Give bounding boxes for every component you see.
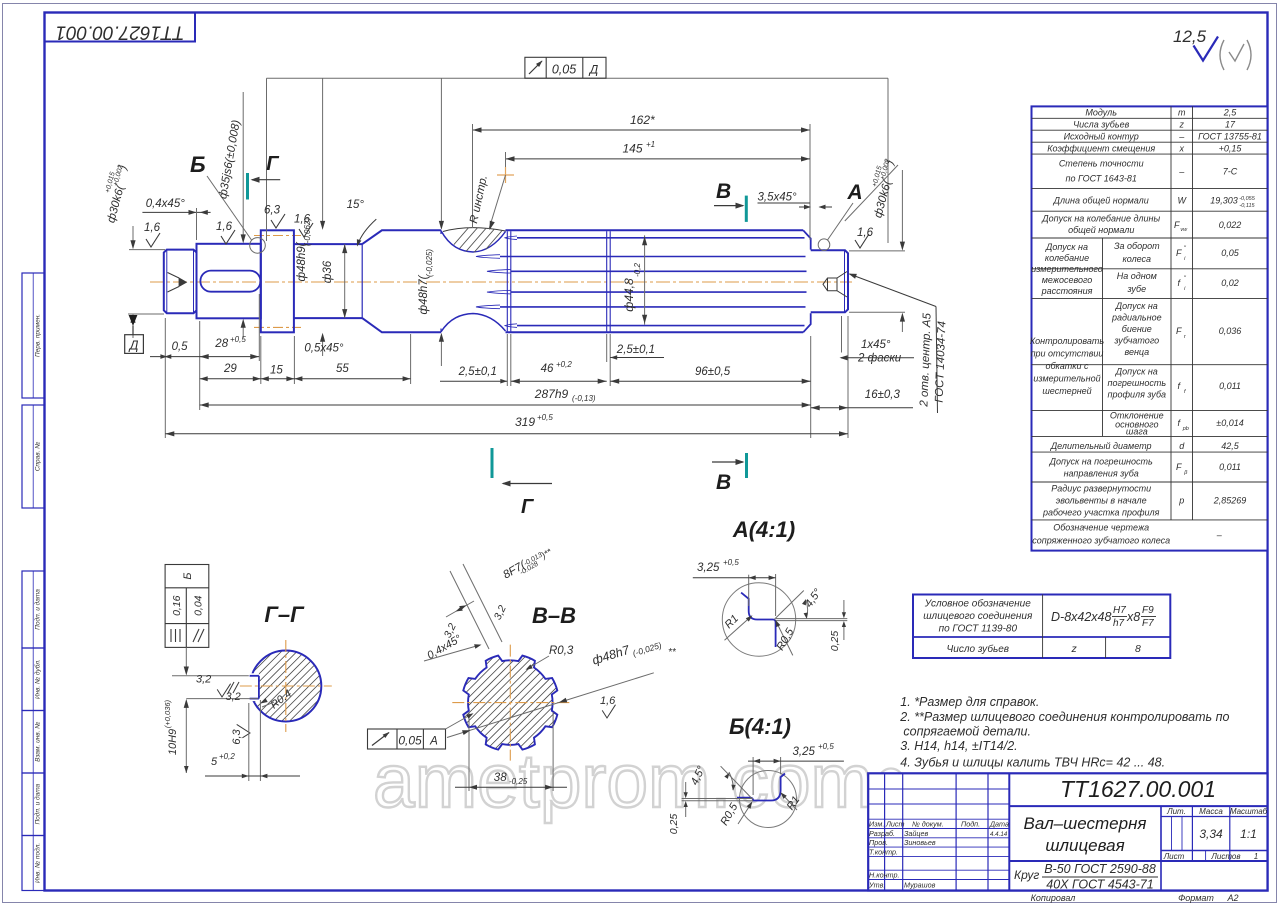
d30k6 dim arrows [132, 226, 134, 246]
G-G centerlines [240, 685, 332, 687]
svg-text:Зайцев: Зайцев [904, 829, 929, 838]
svg-text:0,011: 0,011 [1219, 381, 1241, 391]
svg-text:pb: pb [1182, 426, 1189, 432]
svg-text:Копировал: Копировал [1031, 893, 1076, 903]
svg-text:96±0,5: 96±0,5 [695, 366, 731, 378]
svg-text:(-0,062): (-0,062) [303, 218, 312, 246]
svg-text:Н.контр.: Н.контр. [869, 871, 899, 880]
svg-text:измерительного: измерительного [1031, 264, 1103, 274]
svg-text:p: p [1178, 496, 1184, 506]
svg-text:Подп. и дата: Подп. и дата [34, 783, 42, 824]
svg-text:3,25: 3,25 [793, 746, 816, 758]
svg-text:Радиус развернутости: Радиус развернутости [1051, 484, 1151, 494]
right journal d30k6 [811, 250, 848, 312]
svg-text:–: – [1178, 167, 1185, 177]
svg-text:0,16: 0,16 [171, 595, 183, 616]
svg-text:46: 46 [541, 363, 554, 375]
svg-text:сопрягаемой детали.: сопрягаемой детали. [903, 725, 1031, 739]
svg-text:1:1: 1:1 [1240, 827, 1257, 841]
B R0,5 [738, 803, 752, 824]
svg-text:ГОСТ 13755-81: ГОСТ 13755-81 [1198, 131, 1262, 141]
dim 162* [473, 129, 811, 131]
V-V dim 38-0,25 [468, 712, 470, 791]
svg-text:Д: Д [128, 339, 139, 353]
svg-text:+0,15: +0,15 [1219, 143, 1243, 153]
G-G keyway notch [246, 676, 259, 699]
svg-text:сопряженного зубчатого колеса: сопряженного зубчатого колеса [1032, 536, 1170, 546]
svg-text:Число зубьев: Число зубьев [947, 643, 1009, 655]
svg-text:колебание: колебание [1045, 253, 1089, 263]
svg-text:F: F [1174, 220, 1180, 230]
svg-text:z: z [1070, 643, 1077, 655]
svg-text:2,85269: 2,85269 [1213, 496, 1247, 506]
svg-text:венца: венца [1124, 347, 1149, 357]
svg-text:1х45°: 1х45° [861, 339, 891, 351]
svg-text:по ГОСТ 1139-80: по ГОСТ 1139-80 [939, 624, 1018, 635]
svg-text:На одном: На одном [1117, 271, 1157, 281]
svg-text:4. Зубья и шлицы калить ТВЧ H: 4. Зубья и шлицы калить ТВЧ HRc= 42 ... … [900, 756, 1165, 770]
svg-text:В: В [716, 471, 731, 494]
svg-text:+0,5: +0,5 [818, 742, 834, 751]
svg-text:Подп.: Подп. [961, 820, 980, 829]
svg-text:радиальное: радиальное [1111, 313, 1162, 323]
svg-text:шлицевого соединения: шлицевого соединения [923, 611, 1033, 622]
right center hole [823, 272, 847, 298]
extension lines lower [164, 318, 166, 438]
svg-text:+0,5: +0,5 [230, 335, 246, 344]
svg-text:28: 28 [214, 338, 228, 350]
svg-text:F: F [1176, 326, 1182, 336]
svg-text:F: F [1176, 462, 1182, 472]
A 4,5deg [774, 591, 804, 620]
svg-text:направления зуба: направления зуба [1064, 469, 1139, 479]
svg-text:0,011: 0,011 [1219, 462, 1241, 472]
svg-text:2,5±0,1: 2,5±0,1 [458, 366, 497, 378]
svg-text:8: 8 [1135, 643, 1141, 655]
svg-text:-0,25: -0,25 [509, 777, 528, 786]
dim 145+1 [506, 158, 811, 160]
spline designation table [913, 595, 1170, 659]
svg-text:3,25: 3,25 [697, 562, 720, 574]
svg-text:Условное обозначение: Условное обозначение [924, 598, 1031, 610]
V-V tolerance frame 0,05 A [368, 729, 446, 749]
svg-text:при отсутствии: при отсутствии [1031, 349, 1104, 359]
svg-text:Степень точности: Степень точности [1059, 159, 1144, 169]
shaft section d35js6 [197, 244, 261, 318]
svg-text:3. Н14, h14, ±IT14/2.: 3. Н14, h14, ±IT14/2. [900, 739, 1017, 753]
section mark B bottom [745, 453, 748, 478]
svg-text:0,25: 0,25 [668, 814, 680, 835]
svg-text:Т.контр.: Т.контр. [869, 847, 898, 856]
gear parameter table [1032, 106, 1268, 550]
A R1 [725, 617, 752, 641]
svg-text:6,3: 6,3 [264, 205, 281, 217]
svg-text:19,303: 19,303 [1210, 196, 1238, 206]
svg-text:шестерней: шестерней [1042, 386, 1091, 396]
svg-text:0,5х45°: 0,5х45° [304, 343, 344, 355]
svg-text:40Х ГОСТ 4543-71: 40Х ГОСТ 4543-71 [1046, 878, 1153, 892]
shaft outline: left journal d30k6 [164, 250, 197, 314]
svg-text:общей нормали: общей нормали [1068, 225, 1134, 235]
svg-text:0,02: 0,02 [1221, 278, 1239, 288]
B surface double line [682, 798, 754, 800]
section mark G bottom [491, 448, 494, 478]
svg-text:3,2: 3,2 [196, 674, 211, 686]
collar d48h9 [261, 230, 294, 332]
svg-text:ф36: ф36 [322, 260, 334, 283]
svg-text:рабочего участка профиля: рабочего участка профиля [1042, 508, 1160, 518]
A detail boundary circle [722, 583, 795, 656]
svg-text:145: 145 [623, 142, 643, 156]
svg-text:За оборот: За оборот [1114, 241, 1160, 251]
B dim 3,25+0,5 [752, 757, 754, 795]
svg-text:А: А [429, 736, 438, 748]
rotated designation box TT1627.00.001 [45, 13, 196, 42]
keyway slot on d35 [200, 271, 260, 292]
svg-text:3,34: 3,34 [1199, 827, 1223, 841]
svg-text:Коэффициент смещения: Коэффициент смещения [1047, 143, 1155, 153]
svg-text:Вал–шестерня: Вал–шестерня [1023, 814, 1146, 833]
svg-text:шага: шага [1126, 427, 1148, 437]
svg-text:0,036: 0,036 [1219, 326, 1242, 336]
svg-text:Инв. № дубл.: Инв. № дубл. [34, 659, 42, 699]
svg-text:В: В [716, 180, 731, 203]
main centerline [150, 281, 852, 283]
B 0,25 [685, 782, 687, 795]
tolerance frame 0,05 D [525, 57, 606, 78]
svg-text:**: ** [668, 647, 677, 658]
G-G 3,2 labels [172, 675, 249, 677]
svg-text:±0,014: ±0,014 [1216, 418, 1243, 428]
svg-text:6,3: 6,3 [231, 728, 243, 744]
svg-text:16±0,3: 16±0,3 [865, 389, 901, 401]
detail A boundary circle [818, 239, 830, 251]
svg-text:-0,115: -0,115 [1239, 203, 1255, 209]
left margin graph boxes [22, 273, 45, 398]
left center hole [168, 273, 180, 293]
svg-text:H7: H7 [1113, 605, 1126, 616]
detail B boundary circle [250, 238, 266, 254]
svg-text:(-0,13): (-0,13) [572, 394, 596, 403]
B 4,5deg [721, 766, 753, 799]
svg-text:Пров.: Пров. [869, 838, 888, 847]
svg-text:0,05: 0,05 [552, 63, 576, 77]
svg-text:зубчатого: зубчатого [1113, 336, 1159, 346]
svg-text:F: F [1176, 248, 1182, 258]
A dim 3,25+0,5 [748, 575, 750, 606]
svg-text:измерительной: измерительной [1033, 374, 1100, 384]
V-V centerlines [452, 702, 572, 704]
svg-text:А2: А2 [1226, 893, 1238, 903]
svg-text:Масштаб: Масштаб [1230, 807, 1268, 816]
svg-text:1,6: 1,6 [216, 221, 233, 233]
svg-text:1: 1 [1254, 852, 1258, 861]
svg-text:В-50 ГОСТ 2590-88: В-50 ГОСТ 2590-88 [1044, 862, 1156, 876]
svg-text:Контролировать: Контролировать [1030, 336, 1105, 346]
svg-text:ф48h9(: ф48h9( [296, 241, 308, 281]
svg-text:+1: +1 [646, 140, 655, 149]
svg-text:+0,2: +0,2 [219, 752, 235, 761]
R instr label with orange cross [497, 174, 514, 176]
svg-text:2,5: 2,5 [1223, 108, 1238, 118]
svg-text:Б: Б [190, 152, 206, 177]
A R0,5 [776, 622, 793, 656]
svg-text:+0,5: +0,5 [723, 558, 739, 567]
shaft section d36 [294, 244, 362, 318]
spline ring grooves [506, 231, 508, 331]
svg-text:Разраб.: Разраб. [869, 829, 895, 838]
svg-text:(-0,025): (-0,025) [425, 249, 434, 277]
svg-text:Лит.: Лит. [1166, 807, 1186, 816]
svg-text:Б: Б [182, 572, 194, 579]
svg-text:В–В: В–В [532, 603, 576, 628]
svg-text:Г: Г [266, 153, 280, 175]
svg-text:Обозначение чертежа: Обозначение чертежа [1053, 523, 1149, 533]
svg-text:0,25: 0,25 [829, 631, 841, 652]
svg-text:1,6: 1,6 [857, 227, 874, 239]
svg-text:12,5: 12,5 [1173, 27, 1207, 46]
svg-text:№ докум.: № докум. [912, 820, 944, 829]
svg-text:(+0,036): (+0,036) [163, 699, 172, 728]
B R1 [782, 794, 798, 811]
A 0,25 [843, 600, 845, 615]
svg-text:38: 38 [494, 772, 507, 784]
svg-text:0,05: 0,05 [1221, 248, 1240, 258]
spline relief groove with tool radius (hatched) [441, 231, 506, 252]
svg-text:x: x [1179, 143, 1185, 153]
V-V d48h7 diagonal leader [447, 673, 654, 738]
svg-text:29: 29 [223, 363, 237, 375]
spline section outer and tooth lines [506, 229, 804, 231]
svg-text:+0,5: +0,5 [537, 413, 553, 422]
svg-text:0,5: 0,5 [172, 341, 189, 353]
svg-text:ф44,8: ф44,8 [622, 278, 636, 312]
d30k6 right dim lines [849, 250, 905, 252]
svg-text:биение: биение [1122, 324, 1152, 334]
V-V 8F7 spline width dim [450, 571, 489, 649]
svg-text:–: – [1178, 131, 1185, 141]
datum D flag [129, 315, 138, 326]
svg-text:W: W [1178, 196, 1188, 206]
A detail blue profile [741, 593, 776, 647]
dim row2: 29 / 15 / 55 [200, 378, 411, 380]
svg-text:колеса: колеса [1123, 254, 1152, 264]
svg-text:эвольвенты в начале: эвольвенты в начале [1056, 496, 1147, 506]
svg-text:4.4.14: 4.4.14 [990, 831, 1008, 838]
svg-text:Перв. примен.: Перв. примен. [35, 314, 42, 357]
svg-text:Длина общей нормали: Длина общей нормали [1053, 196, 1149, 206]
svg-text:х8: х8 [1126, 610, 1140, 624]
A detail surface double line [776, 618, 847, 620]
svg-text:1. *Размер для справок.: 1. *Размер для справок. [900, 695, 1039, 709]
svg-text:Делительный диаметр: Делительный диаметр [1050, 441, 1152, 451]
svg-text:2,5±0,1: 2,5±0,1 [616, 344, 655, 356]
svg-text:15°: 15° [347, 199, 365, 211]
svg-text:Модуль: Модуль [1085, 108, 1117, 118]
B detail blue profile [737, 774, 785, 801]
svg-text:Допуск на: Допуск на [1115, 367, 1158, 377]
svg-text:+0,2: +0,2 [556, 360, 572, 369]
svg-text:Инв. № подл.: Инв. № подл. [34, 843, 42, 884]
svg-text:15: 15 [270, 365, 283, 377]
svg-text:межосевого: межосевого [1042, 275, 1093, 285]
svg-text:162*: 162* [630, 113, 655, 127]
svg-text:2. **Размер шлицевого соедине: 2. **Размер шлицевого соединения контрол… [899, 710, 1229, 724]
svg-text:Масса: Масса [1199, 807, 1223, 816]
svg-text:Изм.: Изм. [869, 820, 884, 829]
svg-text:D-8х42х48: D-8х42х48 [1051, 610, 1111, 624]
svg-text:Допуск на погрешность: Допуск на погрешность [1049, 457, 1153, 467]
svg-text:Взам. инв. №: Взам. инв. № [35, 722, 42, 762]
svg-text:m: m [1178, 108, 1186, 118]
svg-text:Числа зубьев: Числа зубьев [1073, 119, 1130, 129]
runout leader line to datum frame [267, 77, 889, 79]
svg-text:по ГОСТ 1643-81: по ГОСТ 1643-81 [1066, 174, 1137, 184]
svg-text:F7: F7 [1142, 618, 1154, 629]
svg-text:1,6: 1,6 [144, 222, 161, 234]
svg-text:Исходный контур: Исходный контур [1064, 131, 1139, 141]
svg-text:шлицевая: шлицевая [1045, 836, 1124, 855]
svg-text:R0,3: R0,3 [549, 645, 574, 657]
svg-text:Листов: Листов [1210, 852, 1240, 861]
svg-text:Д: Д [588, 63, 599, 77]
svg-text:Допуск на: Допуск на [1115, 301, 1158, 311]
svg-text:Подп. и дата: Подп. и дата [34, 589, 42, 630]
G-G tolerance frame (parallelism) [165, 565, 209, 648]
spline right chamfer 3.5x45 [803, 230, 811, 332]
svg-text:287h9: 287h9 [534, 387, 569, 401]
svg-text:Г–Г: Г–Г [264, 602, 305, 627]
svg-text:Б(4:1): Б(4:1) [729, 714, 791, 739]
svg-text:погрешность: погрешность [1108, 378, 1167, 388]
svg-text:–: – [1216, 530, 1223, 540]
svg-text:17: 17 [1225, 119, 1236, 129]
svg-text:Г: Г [521, 496, 535, 518]
svg-text:2 фаски: 2 фаски [857, 353, 902, 365]
spline groove dims [506, 334, 508, 386]
svg-text:7-С: 7-С [1223, 167, 1238, 177]
svg-text:0,4х45°: 0,4х45° [146, 198, 186, 210]
G-G leader from frame down [185, 647, 187, 672]
svg-text:Лист: Лист [885, 820, 905, 829]
svg-text:42,5: 42,5 [1221, 441, 1240, 451]
collar pitch dash-dot marks [254, 235, 301, 237]
svg-text:1,6: 1,6 [600, 695, 616, 707]
svg-text:h7: h7 [1113, 618, 1125, 629]
svg-text:z: z [1179, 119, 1185, 129]
svg-text:ТТ1627.00.001: ТТ1627.00.001 [1060, 776, 1216, 802]
svg-text:vw: vw [1180, 227, 1188, 233]
svg-text:Допуск на: Допуск на [1045, 242, 1088, 252]
svg-text:ТТ1627.00.001: ТТ1627.00.001 [56, 22, 185, 43]
svg-text:Утв.: Утв. [868, 880, 885, 889]
cone 15deg and d48h7 cylinder [362, 230, 441, 332]
svg-text:Справ. №: Справ. № [35, 442, 42, 472]
svg-text:обкатки с: обкатки с [1045, 361, 1089, 371]
svg-text:-0,055: -0,055 [1239, 196, 1256, 202]
svg-text:Формат: Формат [1178, 893, 1214, 903]
svg-text:F9: F9 [1142, 605, 1154, 616]
svg-text:-0,2: -0,2 [633, 263, 642, 277]
svg-text:зубе: зубе [1126, 284, 1146, 294]
svg-text:А(4:1): А(4:1) [732, 517, 795, 542]
svg-text:319: 319 [515, 415, 535, 429]
svg-text:Лист: Лист [1163, 852, 1185, 861]
svg-text:Круг: Круг [1014, 868, 1039, 882]
svg-text:А: А [847, 181, 863, 204]
svg-text:ф48h7(: ф48h7( [418, 274, 430, 314]
svg-text:Дата: Дата [989, 820, 1009, 829]
svg-text:Зиновьев: Зиновьев [904, 838, 936, 847]
svg-text:расстояния: расстояния [1041, 286, 1093, 296]
svg-text:3,5х45°: 3,5х45° [758, 192, 798, 204]
title block frame [868, 773, 1267, 890]
svg-text:0,022: 0,022 [1219, 220, 1242, 230]
svg-text:0,04: 0,04 [193, 595, 205, 616]
svg-text:55: 55 [336, 363, 349, 375]
B detail boundary circle [740, 771, 797, 828]
svg-text:5: 5 [211, 756, 218, 768]
svg-text:Мурашов: Мурашов [904, 880, 936, 889]
svg-text:10Н9: 10Н9 [167, 729, 179, 755]
svg-text:профиля зуба: профиля зуба [1108, 390, 1167, 400]
svg-text:0,05: 0,05 [398, 734, 422, 748]
svg-text:Допуск на колебание длины: Допуск на колебание длины [1041, 214, 1160, 224]
